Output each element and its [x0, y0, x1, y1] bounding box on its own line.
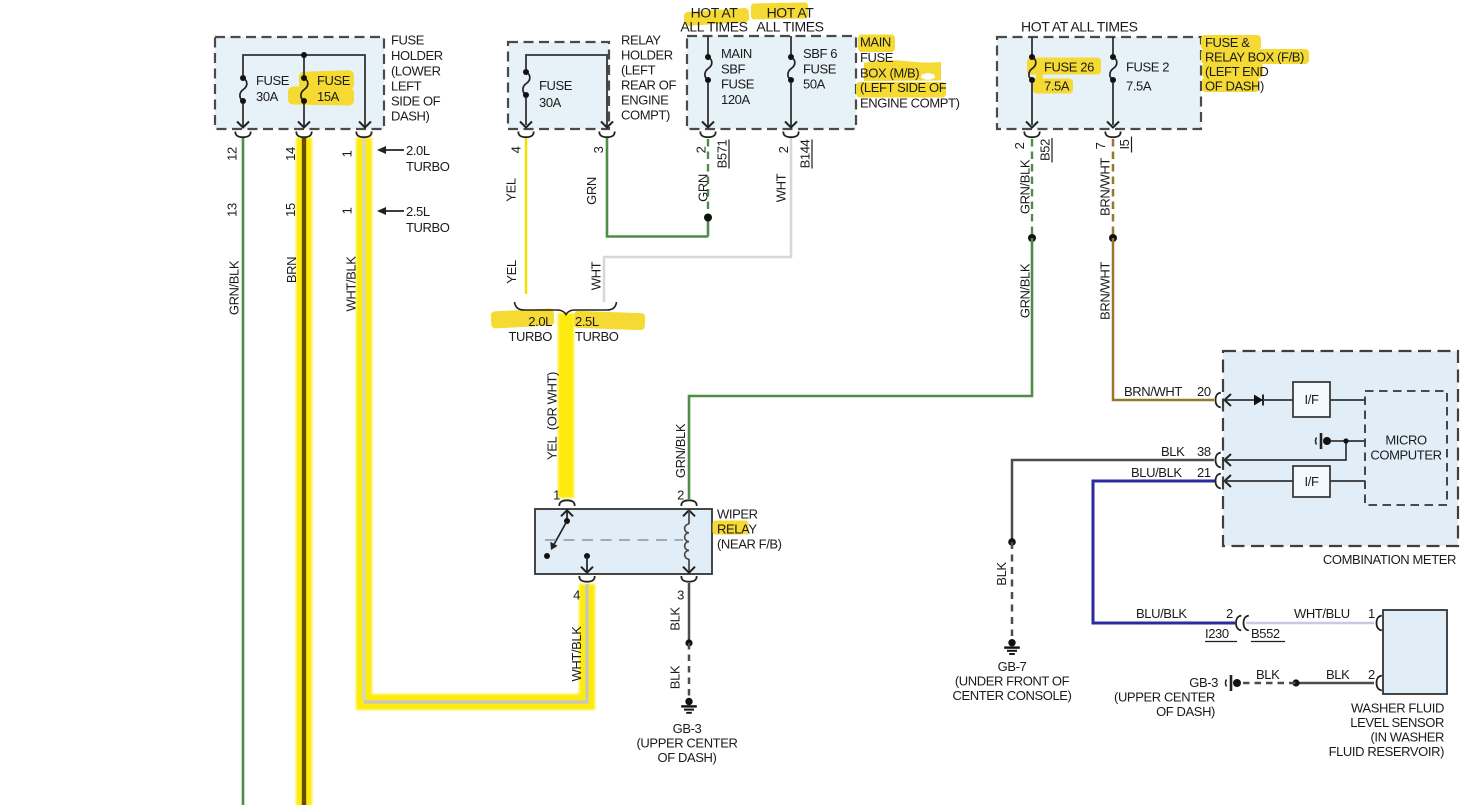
wire BLK from washer fluid level sensor pin 2 [1296, 682, 1374, 685]
label 2.0L TURBO brace [508, 314, 552, 344]
combination meter pin 21 connector [1216, 474, 1232, 489]
svg-text:ENGINE COMPT): ENGINE COMPT) [860, 96, 960, 111]
svg-text:COMPT): COMPT) [621, 108, 670, 123]
svg-text:2: 2 [1012, 142, 1027, 149]
svg-text:3: 3 [591, 146, 606, 153]
svg-text:HOLDER: HOLDER [621, 48, 673, 63]
svg-text:GB-7: GB-7 [998, 659, 1027, 674]
svg-text:FUSE 26: FUSE 26 [1044, 60, 1094, 75]
label GRN/BLK left [227, 260, 242, 315]
label GRN/BLK wiper [673, 423, 688, 478]
label BLU/BLK 21 [1131, 465, 1211, 480]
inline connector I230 B552 [1236, 616, 1249, 631]
wire WHT/BLK from fuse holder pin 1 to wiper relay pin 4 [364, 138, 587, 702]
svg-text:BLK: BLK [1326, 667, 1350, 682]
label FUSE 30A left holder [256, 73, 290, 104]
label BRN [284, 257, 299, 283]
main fuse box (M/B) [687, 36, 856, 129]
fuse 26 7.5A F/B [1029, 37, 1036, 125]
svg-text:B144: B144 [798, 139, 813, 168]
label MAIN SBF FUSE 120A [721, 46, 755, 107]
washer sensor pin 1 connector [1377, 616, 1382, 631]
svg-text:I5: I5 [1117, 139, 1132, 149]
pin 4 relay holder label [509, 146, 524, 153]
label 2.5L TURBO arrow [406, 204, 450, 235]
svg-text:7.5A: 7.5A [1044, 79, 1070, 94]
svg-text:BRN/WHT: BRN/WHT [1124, 384, 1182, 399]
label WIPER RELAY block [717, 507, 782, 552]
wiper relay coil [681, 510, 696, 582]
wire GRN from relay holder pin 3 [607, 138, 708, 237]
junction dot BLK sensor [1292, 679, 1299, 686]
svg-text:2: 2 [776, 146, 791, 153]
svg-text:1: 1 [340, 207, 355, 214]
label HOT AT ALL TIMES 1 [680, 5, 747, 35]
svg-text:BLK: BLK [994, 562, 1009, 586]
highlight band on YEL (OR WHT) wire [558, 313, 574, 498]
pin 2 B52 label [1012, 138, 1053, 163]
wire BLU/BLK from combination meter pin 21 [1093, 481, 1235, 623]
label COMBINATION METER [1323, 552, 1456, 567]
svg-text:I/F: I/F [1305, 474, 1319, 489]
highlight swashes FUSE RELAY BOX label [1201, 35, 1309, 92]
highlight swash 2.0L [491, 308, 555, 328]
arrow to 2.5L TURBO [377, 207, 404, 215]
highlight swash FUSE 26 [1027, 58, 1101, 94]
label YEL (OR WHT) [545, 372, 560, 460]
wire BLK dashed to ground GB-3 [688, 643, 691, 696]
svg-text:TURBO: TURBO [508, 329, 552, 344]
combination meter pin 38 connector [1216, 453, 1232, 468]
svg-text:I230: I230 [1205, 626, 1229, 641]
svg-text:FUSE: FUSE [539, 78, 573, 93]
svg-text:BLU/BLK: BLU/BLK [1136, 606, 1187, 621]
svg-text:FLUID RESERVOIR): FLUID RESERVOIR) [1329, 744, 1445, 759]
svg-text:YEL (OR WHT): YEL (OR WHT) [545, 372, 560, 460]
highlight swash 2.5L [574, 311, 646, 330]
svg-text:BRN: BRN [284, 257, 299, 283]
svg-text:RELAY: RELAY [621, 33, 661, 48]
label HOT AT ALL TIMES 2 [756, 5, 823, 35]
meter wire I/F 1 to micro computer [1330, 399, 1365, 401]
wire GRN dashed from main fuse box pin 2 B571 [707, 139, 709, 237]
svg-text:REAR OF: REAR OF [621, 78, 676, 93]
label BRN/WHT fb upper [1098, 158, 1113, 216]
svg-text:TURBO: TURBO [406, 220, 450, 235]
label MAIN FUSE BOX block [860, 35, 960, 111]
fuse holder box (lower left of dash) [215, 37, 384, 129]
wiper relay pin 1 connector [559, 500, 574, 516]
svg-text:1: 1 [553, 488, 560, 503]
svg-text:2: 2 [694, 146, 709, 153]
I/F box 1 [1293, 382, 1330, 417]
svg-text:2: 2 [1368, 667, 1375, 682]
wire BLK dashed to ground GB-7 [1011, 542, 1014, 636]
svg-text:2.5L: 2.5L [575, 314, 599, 329]
wiper relay box [535, 509, 712, 574]
wire BRN from fuse holder pin 14/15 [302, 138, 306, 805]
label HOT AT ALL TIMES right [1021, 19, 1138, 35]
pin 1 label upper [340, 150, 355, 157]
pin 1 label lower [340, 207, 355, 214]
wire WHT from main fuse box pin 2 B144 [604, 138, 791, 302]
svg-text:FUSE: FUSE [391, 33, 425, 48]
svg-text:BLK: BLK [1161, 444, 1185, 459]
svg-text:BLK: BLK [668, 665, 683, 689]
svg-text:GRN/BLK: GRN/BLK [1018, 263, 1033, 318]
svg-text:13: 13 [225, 203, 240, 217]
fuse 2 7.5A F/B [1110, 37, 1117, 125]
label MICRO COMPUTER [1370, 433, 1441, 463]
svg-text:WHT: WHT [589, 261, 604, 290]
svg-text:2.0L: 2.0L [528, 314, 552, 329]
highlight band on BRN wire [296, 138, 312, 805]
svg-text:BLK: BLK [668, 607, 683, 631]
svg-text:HOT AT ALL TIMES: HOT AT ALL TIMES [1021, 19, 1138, 35]
svg-text:OF DASH): OF DASH) [1205, 79, 1264, 94]
label WHT/BLU 1 [1294, 606, 1375, 621]
pin 13 label [225, 203, 240, 217]
svg-text:ENGINE: ENGINE [621, 93, 669, 108]
micro computer box [1365, 391, 1447, 505]
svg-text:WHT/BLK: WHT/BLK [344, 256, 359, 312]
label GRN/BLK fb upper [1018, 159, 1033, 214]
relay holder box [508, 42, 609, 129]
svg-text:(LOWER: (LOWER [391, 64, 441, 79]
svg-text:TURBO: TURBO [406, 159, 450, 174]
svg-text:GRN/BLK: GRN/BLK [1018, 159, 1033, 214]
svg-text:YEL: YEL [504, 260, 519, 284]
svg-text:FUSE: FUSE [803, 62, 837, 77]
label FUSE 26 7.5A [1044, 60, 1094, 94]
label FUSE 2 7.5A [1126, 60, 1169, 94]
label FUSE HOLDER block [391, 33, 443, 124]
meter internal chassis plate symbol [1316, 433, 1332, 449]
svg-text:BLU/BLK: BLU/BLK [1131, 465, 1182, 480]
svg-text:BLK: BLK [1256, 667, 1280, 682]
SBF 6 fuse 50A [788, 36, 795, 126]
svg-text:BRN/WHT: BRN/WHT [1098, 262, 1113, 320]
junction dot BLK [685, 639, 692, 646]
svg-text:ALL TIMES: ALL TIMES [680, 19, 747, 35]
meter internal wire pin 20 with diode [1224, 395, 1293, 406]
svg-text:14: 14 [283, 147, 298, 161]
svg-text:OF DASH): OF DASH) [1156, 704, 1215, 719]
svg-text:DASH): DASH) [391, 109, 430, 124]
relay holder internal bus [526, 55, 607, 126]
pin 7 I5 label [1093, 137, 1132, 153]
svg-text:WHT: WHT [774, 173, 789, 202]
combination meter box [1223, 351, 1458, 546]
svg-text:FUSE: FUSE [721, 77, 755, 92]
ground GB-3 under wiper relay [681, 698, 697, 713]
label WHT/BLK pin 4 [569, 626, 584, 682]
svg-text:(LEFT SIDE OF: (LEFT SIDE OF [860, 80, 947, 95]
highlight band on WHT/BLK wire path [364, 138, 587, 703]
svg-text:YEL: YEL [504, 178, 519, 202]
svg-text:MAIN: MAIN [860, 35, 891, 50]
wiper relay pin 4 contact [579, 553, 594, 582]
junction dot BRN/WHT [1109, 234, 1117, 242]
svg-text:COMBINATION METER: COMBINATION METER [1323, 552, 1456, 567]
svg-text:(LEFT END: (LEFT END [1205, 64, 1268, 79]
highlight swash RELAY wiper [713, 521, 749, 535]
combination meter pin 20 connector [1216, 393, 1232, 408]
svg-text:GRN: GRN [696, 174, 711, 202]
svg-text:(LEFT: (LEFT [621, 63, 656, 78]
label I/F 2 [1305, 474, 1319, 489]
svg-text:(UPPER CENTER: (UPPER CENTER [1114, 690, 1215, 705]
svg-text:TURBO: TURBO [575, 329, 619, 344]
svg-text:7.5A: 7.5A [1126, 79, 1152, 94]
svg-text:MAIN: MAIN [721, 46, 752, 61]
wire BLK dashed to ground GB-3 right [1243, 682, 1296, 685]
svg-text:SBF: SBF [721, 62, 746, 77]
label GB-3 center block [637, 721, 738, 765]
relay holder pin arrows and connectors [518, 122, 614, 138]
wire BLK from combination meter pin 38 [1012, 460, 1214, 542]
svg-text:(UPPER CENTER: (UPPER CENTER [637, 736, 738, 751]
label I/F 1 [1305, 392, 1319, 407]
meter wire I/F 2 to micro computer [1330, 480, 1365, 482]
wiper relay pin labels [553, 488, 684, 603]
highlight swash HOT AT 1 [684, 8, 750, 27]
ground GB-3 plate symbol right [1226, 675, 1242, 691]
wire BRN/WHT to combination meter pin 20 [1113, 238, 1214, 400]
svg-text:21: 21 [1197, 465, 1211, 480]
arrow to 2.0L TURBO [377, 146, 404, 154]
svg-text:15: 15 [283, 203, 298, 217]
junction dot GRN/BLK [1028, 234, 1036, 242]
label FUSE 30A relay holder [539, 78, 573, 110]
svg-text:B52: B52 [1038, 139, 1053, 161]
label WHT/BLK upper [344, 256, 359, 312]
wiper relay pin 2 connector [681, 500, 696, 516]
svg-text:7: 7 [1093, 142, 1108, 149]
svg-text:30A: 30A [256, 89, 279, 104]
label WHT right [774, 173, 789, 202]
svg-text:1: 1 [340, 150, 355, 157]
label BLK GB-7 [994, 562, 1009, 586]
wire YEL from relay holder pin 4 [525, 138, 528, 294]
main SBF fuse 120A [705, 36, 712, 126]
F/B pin arrows and connectors [1024, 122, 1120, 138]
svg-text:FUSE: FUSE [256, 73, 290, 88]
label BRN/WHT fb lower [1098, 262, 1113, 320]
brace joining YEL and WHT [515, 302, 617, 315]
svg-text:LEVEL SENSOR: LEVEL SENSOR [1350, 715, 1444, 730]
svg-text:WHT/BLK: WHT/BLK [569, 626, 584, 682]
svg-text:FUSE: FUSE [317, 73, 351, 88]
svg-text:GRN/BLK: GRN/BLK [227, 260, 242, 315]
svg-text:ALL TIMES: ALL TIMES [756, 19, 823, 35]
washer fluid level sensor box [1383, 610, 1447, 694]
svg-text:15A: 15A [317, 89, 340, 104]
wiper relay mechanical link dashed [545, 539, 683, 541]
svg-text:FUSE 2: FUSE 2 [1126, 60, 1169, 75]
svg-text:30A: 30A [539, 95, 562, 110]
main fuse box pin arrows and connectors [700, 122, 798, 138]
svg-text:BRN/WHT: BRN/WHT [1098, 158, 1113, 216]
label BLK 2 sensor [1326, 667, 1375, 682]
pin 2 B571 label [694, 139, 730, 168]
fuse holder pin arrows and connectors [235, 122, 371, 138]
svg-text:12: 12 [225, 147, 240, 161]
svg-text:COMPUTER: COMPUTER [1370, 448, 1441, 463]
meter internal wire pin 38 [1224, 438, 1365, 460]
svg-text:GRN: GRN [584, 177, 599, 205]
svg-text:1: 1 [1368, 606, 1375, 621]
wire BRN/WHT dashed from F/B fuse 2 pin 7 I5 [1112, 139, 1115, 238]
svg-text:OF DASH): OF DASH) [658, 750, 717, 765]
pin 3 relay holder label [591, 146, 606, 153]
svg-text:RELAY: RELAY [717, 522, 757, 537]
label BLK sensor left [1256, 667, 1280, 682]
label WHT lower [589, 261, 604, 290]
svg-text:MICRO: MICRO [1385, 433, 1427, 448]
svg-text:SBF 6: SBF 6 [803, 46, 837, 61]
svg-text:2: 2 [677, 488, 684, 503]
svg-text:120A: 120A [721, 92, 750, 107]
label RELAY HOLDER block [621, 33, 676, 123]
fuse F 15A left holder [301, 75, 308, 126]
svg-text:B571: B571 [715, 139, 730, 168]
fuse F 30A left holder [240, 75, 247, 126]
svg-text:FUSE &: FUSE & [1205, 35, 1250, 50]
svg-text:WASHER FLUID: WASHER FLUID [1351, 701, 1444, 716]
svg-text:BOX (M/B): BOX (M/B) [860, 66, 919, 81]
junction dot BLK GB-7 [1008, 538, 1016, 546]
label 2.0L TURBO arrow [406, 143, 450, 174]
label YEL lower [504, 260, 519, 284]
label BLK 38 [1161, 444, 1211, 459]
pin 12 label [225, 147, 240, 161]
svg-text:RELAY BOX (F/B): RELAY BOX (F/B) [1205, 50, 1304, 65]
label YEL upper [504, 178, 519, 202]
pin 2 B144 label [776, 139, 813, 168]
meter internal wire pin 21 [1224, 480, 1293, 482]
highlight swash FUSE 15A [288, 70, 354, 106]
pin 15 label [283, 203, 298, 217]
svg-text:(IN WASHER: (IN WASHER [1370, 730, 1444, 745]
ground GB-7 [1004, 639, 1020, 654]
svg-text:CENTER CONSOLE): CENTER CONSOLE) [953, 688, 1072, 703]
label SBF 6 FUSE 50A [803, 46, 837, 92]
svg-text:3: 3 [677, 588, 684, 603]
label I230 [1205, 626, 1237, 642]
svg-text:20: 20 [1197, 384, 1211, 399]
fuse and relay box (F/B) [997, 37, 1201, 129]
svg-text:GB-3: GB-3 [1189, 675, 1218, 690]
svg-text:I/F: I/F [1305, 392, 1319, 407]
label BLK pin 3 upper [668, 607, 683, 631]
svg-text:HOLDER: HOLDER [391, 48, 443, 63]
svg-text:2: 2 [1226, 606, 1233, 621]
label WASHER FLUID LEVEL SENSOR block [1329, 701, 1445, 760]
svg-text:FUSE: FUSE [860, 50, 894, 65]
highlight swash HOT AT 2 [751, 2, 808, 19]
label GB-3 right block [1114, 675, 1218, 719]
label B552 [1251, 626, 1285, 642]
label GRN/BLK fb lower [1018, 263, 1033, 318]
svg-text:2.5L: 2.5L [406, 204, 430, 219]
wire BLK from wiper relay pin 3 [688, 583, 691, 643]
svg-text:4: 4 [573, 588, 580, 603]
svg-text:2.0L: 2.0L [406, 143, 430, 158]
svg-text:(NEAR F/B): (NEAR F/B) [717, 537, 782, 552]
svg-text:4: 4 [509, 146, 524, 153]
fuse holder internal bus wire [243, 52, 365, 126]
label BRN/WHT 20 [1124, 384, 1211, 399]
label GRN left [584, 177, 599, 205]
wire GRN/BLK dashed from F/B fuse 26 pin 2 B52 [1031, 139, 1033, 238]
svg-text:GRN/BLK: GRN/BLK [673, 423, 688, 478]
junction dot GRN [704, 214, 712, 222]
svg-text:(UNDER FRONT OF: (UNDER FRONT OF [955, 674, 1070, 689]
label GRN right [696, 174, 711, 202]
pin 14 label [283, 147, 298, 161]
svg-text:LEFT: LEFT [391, 79, 422, 94]
fuse 30A relay holder [523, 69, 530, 125]
svg-text:WIPER: WIPER [717, 507, 758, 522]
label BLU/BLK 2 [1136, 606, 1233, 621]
svg-text:50A: 50A [803, 77, 826, 92]
label BLK pin 3 lower [668, 665, 683, 689]
wire GRN from fuse holder pin 12/13 [242, 138, 245, 805]
svg-text:38: 38 [1197, 444, 1211, 459]
label 2.5L TURBO brace [575, 314, 619, 344]
svg-text:WHT/BLU: WHT/BLU [1294, 606, 1350, 621]
label FUSE 15A left holder [317, 73, 351, 104]
I/F box 2 [1293, 466, 1330, 497]
svg-text:B552: B552 [1251, 626, 1280, 641]
washer sensor pin 2 connector [1377, 676, 1382, 691]
svg-text:GB-3: GB-3 [673, 721, 702, 736]
wire WHT/BLU to washer fluid level sensor pin 1 [1246, 622, 1374, 625]
wire GRN/BLK to wiper relay pin 2 [689, 238, 1032, 499]
wiper relay switch [544, 510, 570, 559]
label GB-7 block [953, 659, 1072, 703]
label FUSE RELAY BOX block [1205, 35, 1304, 94]
svg-text:SIDE OF: SIDE OF [391, 94, 441, 109]
highlight swashes MAIN FUSE BOX label [856, 35, 946, 98]
